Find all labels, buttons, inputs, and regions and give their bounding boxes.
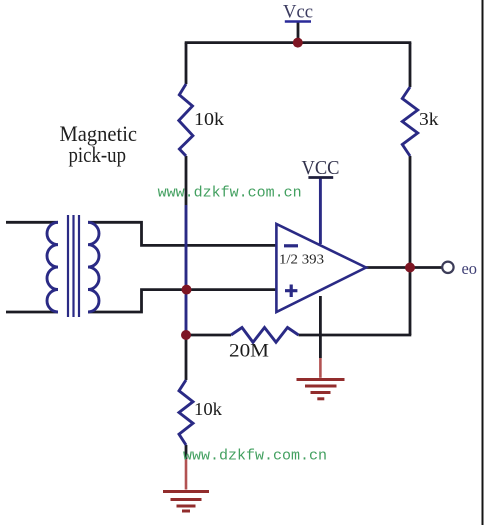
svg-text:3k: 3k: [419, 109, 439, 129]
svg-text:10k: 10k: [194, 109, 224, 129]
svg-text:www.dzkfw.com.cn: www.dzkfw.com.cn: [183, 448, 327, 465]
svg-text:1/2 393: 1/2 393: [279, 253, 324, 268]
svg-text:Vcc: Vcc: [283, 2, 313, 23]
svg-text:www.dzkfw.com.cn: www.dzkfw.com.cn: [158, 185, 302, 202]
svg-text:eo: eo: [462, 259, 478, 278]
svg-text:pick-up: pick-up: [69, 142, 127, 167]
svg-text:10k: 10k: [194, 399, 222, 419]
svg-text:VCC: VCC: [302, 157, 340, 179]
svg-text:20M: 20M: [229, 342, 269, 362]
